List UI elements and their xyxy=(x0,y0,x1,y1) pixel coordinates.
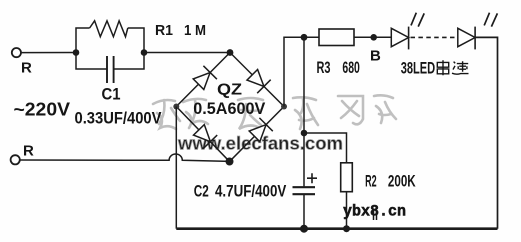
svg-text:ybx8.cn: ybx8.cn xyxy=(343,203,406,221)
node bridge bottom xyxy=(226,158,234,166)
svg-text:R3: R3 xyxy=(317,58,331,77)
terminal P2 (lower R input) xyxy=(11,155,20,164)
svg-text:R: R xyxy=(23,143,34,160)
wire node D to R2 xyxy=(304,133,347,163)
node A (left junction of R1C1) xyxy=(73,49,80,56)
diode D4 (bottom-right arm) xyxy=(249,125,266,142)
watermark chinese characters xyxy=(153,95,396,129)
LED LED2 xyxy=(458,28,475,46)
svg-text:C2: C2 xyxy=(194,182,209,201)
wire bottom rail xyxy=(176,227,497,230)
svg-text:R1: R1 xyxy=(155,22,173,39)
svg-text:4.7UF/400V: 4.7UF/400V xyxy=(215,182,287,201)
node R2-rail xyxy=(343,225,350,232)
diode D3 (left-bottom arm) xyxy=(194,125,211,142)
node D (R2 branch) xyxy=(301,130,308,137)
wire RC block frame xyxy=(76,28,144,69)
svg-text:R2: R2 xyxy=(365,172,377,191)
svg-text:0.33UF/400V: 0.33UF/400V xyxy=(75,109,163,128)
resistor R2 xyxy=(341,163,353,192)
svg-text:680: 680 xyxy=(342,58,360,77)
svg-text:B: B xyxy=(370,48,381,65)
label chuan (CJK) xyxy=(437,60,448,75)
bridge rectifier QZ frame xyxy=(176,53,284,162)
wire node B1 to bridge top xyxy=(144,52,230,54)
node C (filter branch) xyxy=(301,34,308,41)
wire bridge left (DC-) down to ground rail xyxy=(175,107,177,229)
wire terminal P1 to node A xyxy=(21,52,76,54)
svg-text:38LED: 38LED xyxy=(401,59,436,78)
svg-text:1 M: 1 M xyxy=(184,22,206,39)
capacitor C2 xyxy=(293,186,316,188)
svg-text:200K: 200K xyxy=(388,172,416,191)
diode D2 (top-right arm) xyxy=(247,70,264,87)
wire LED2 to right rail xyxy=(475,37,497,228)
wire bridge right (DC+) up and to R3 xyxy=(284,37,319,106)
svg-text:~220V: ~220V xyxy=(14,100,71,120)
LED LED1 xyxy=(391,28,408,46)
svg-text:QZ: QZ xyxy=(217,82,242,99)
node B1 (right junction of R1C1) xyxy=(141,49,148,56)
terminal P1 (upper R input) xyxy=(12,48,21,57)
svg-text:0.5A600V: 0.5A600V xyxy=(193,99,266,118)
wire R3 to node B xyxy=(354,36,391,38)
wire dashed (LED chain) xyxy=(411,36,458,38)
diode D1 (left-top arm) xyxy=(193,73,210,90)
wire terminal P2 to bridge bottom with hop xyxy=(21,154,230,161)
node B xyxy=(370,34,377,41)
node bridge top xyxy=(227,49,234,56)
resistor R3 xyxy=(319,29,354,46)
label lian (CJK) xyxy=(452,61,469,74)
node C2-rail xyxy=(300,225,308,233)
svg-text:C1: C1 xyxy=(102,85,121,104)
svg-text:R: R xyxy=(21,60,32,77)
node bridge right xyxy=(281,104,287,110)
wire filter branch down xyxy=(303,37,305,186)
wire R2 to ground rail xyxy=(346,192,348,229)
capacitor C1 xyxy=(106,56,108,83)
resistor R1 xyxy=(90,21,128,37)
node bridge left xyxy=(173,104,179,110)
